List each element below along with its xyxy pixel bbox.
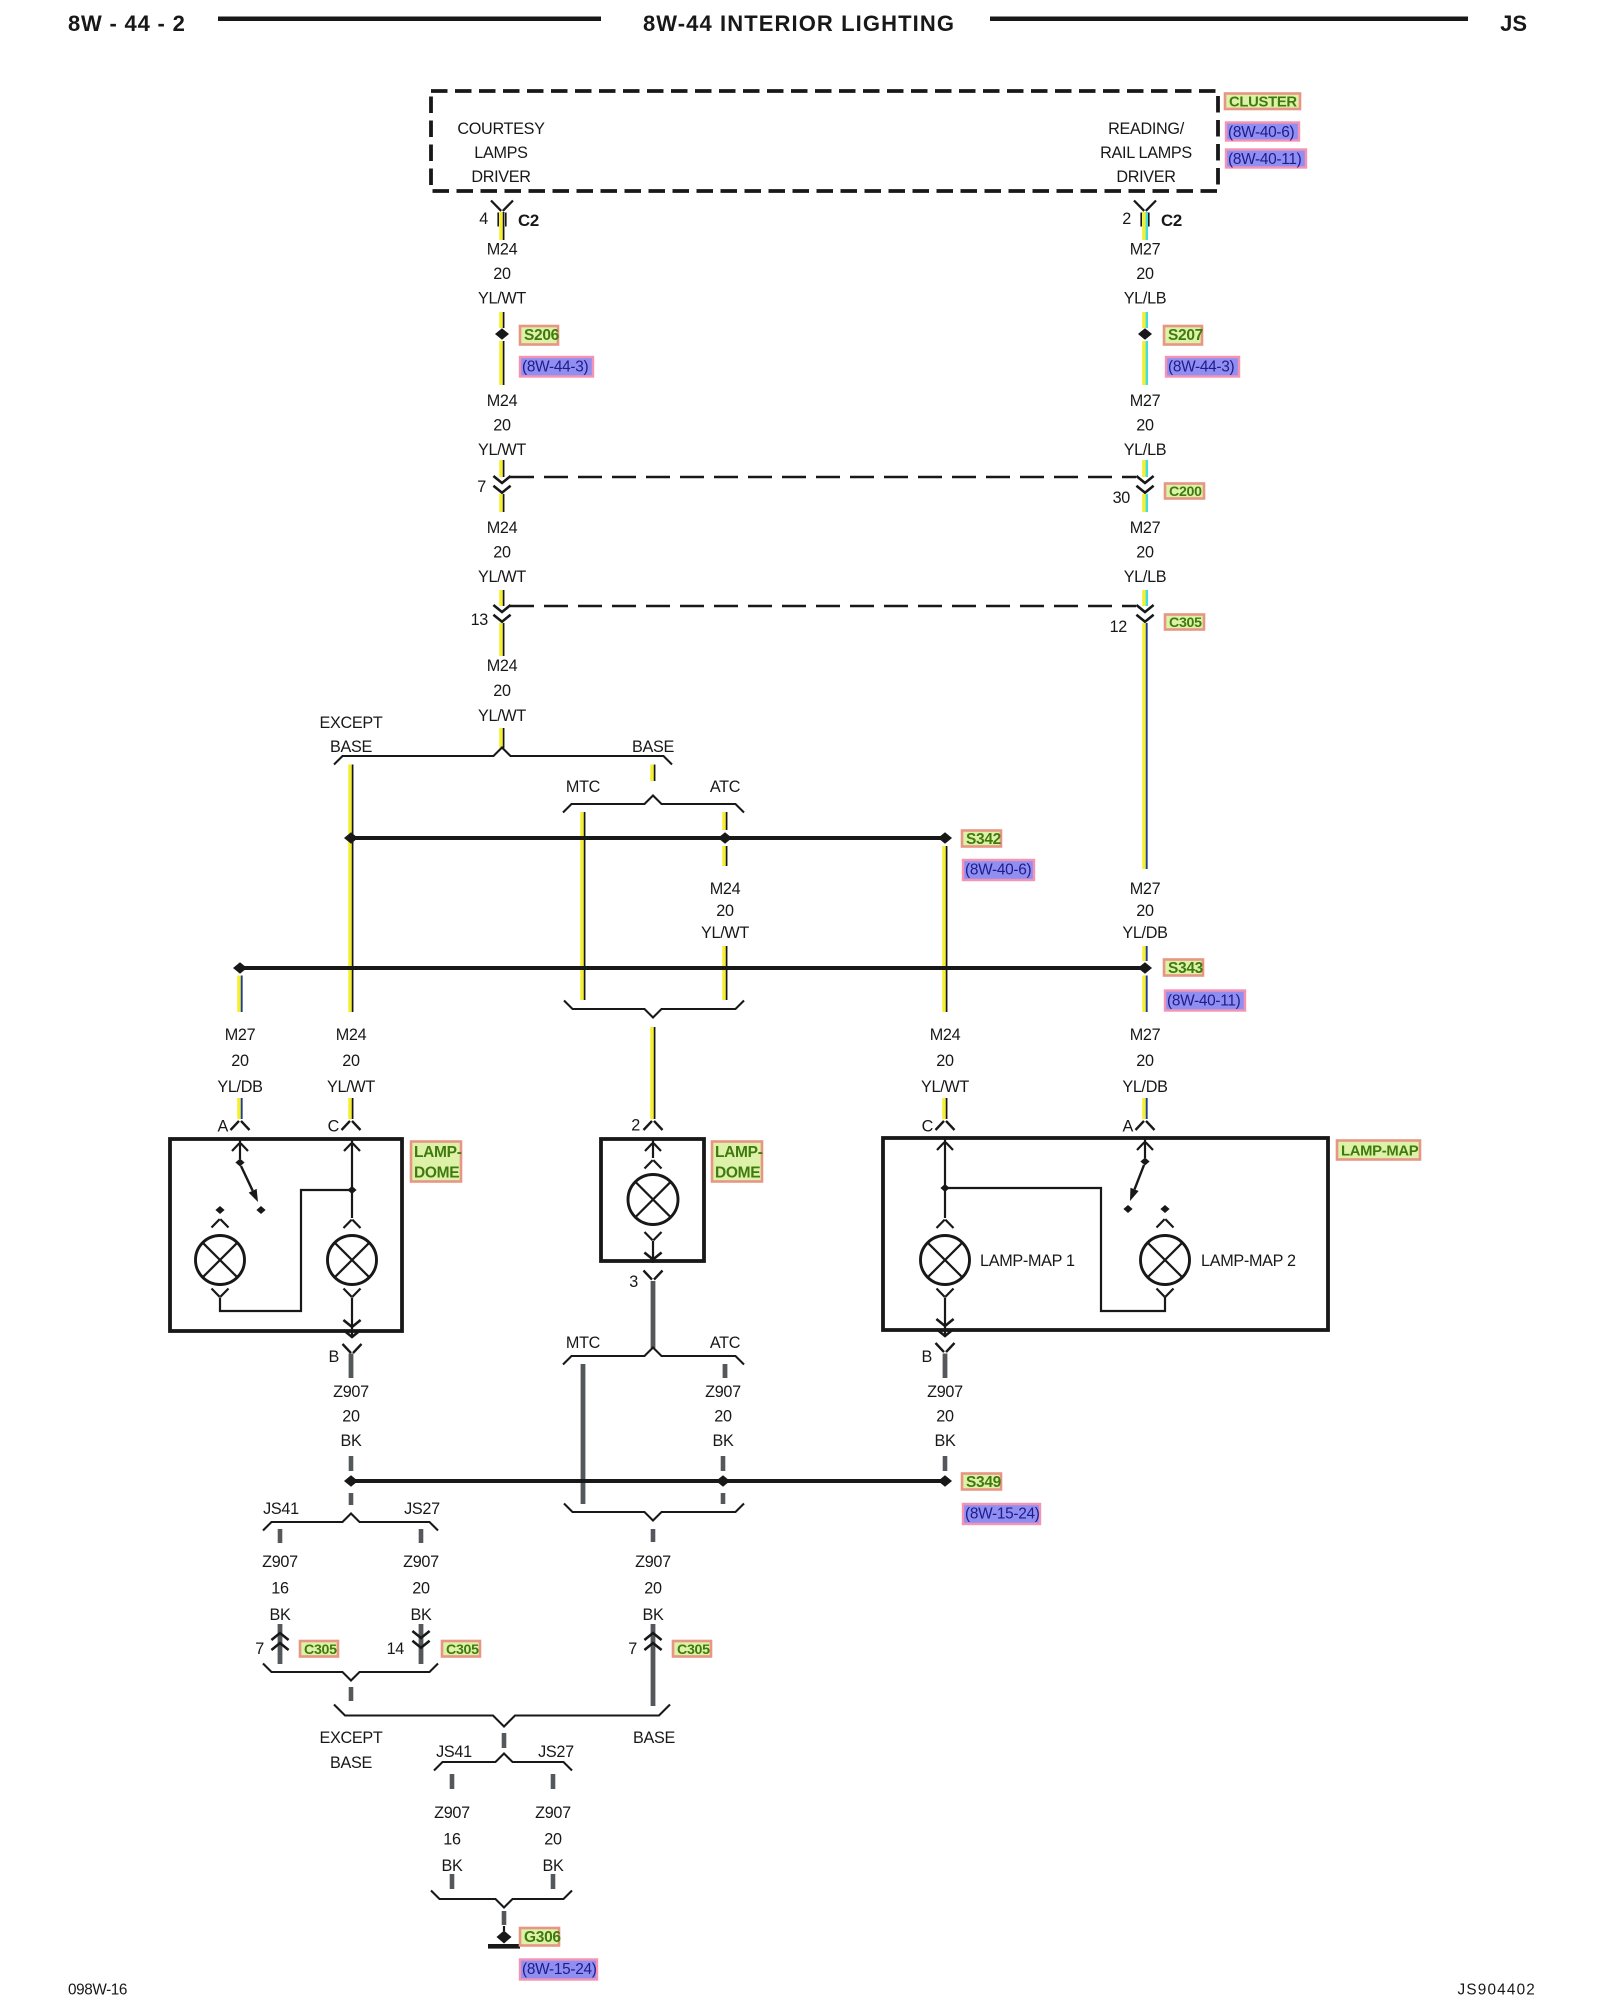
option split MTC / ATC upper [563, 796, 744, 813]
wire Z907 js27 ground stub [551, 1774, 556, 1789]
svg-text:BK: BK [270, 1606, 291, 1624]
svg-text:JS904402: JS904402 [1458, 1982, 1537, 1999]
svg-text:(8W-44-3): (8W-44-3) [522, 359, 588, 376]
svg-text:YL/DB: YL/DB [1122, 1078, 1167, 1096]
svg-text:BK: BK [411, 1606, 432, 1624]
dome lamp2 [328, 1236, 377, 1285]
svg-text:LAMP-MAP: LAMP-MAP [1341, 1144, 1419, 1160]
splice S342 diamond atc [718, 832, 732, 844]
svg-text:16: 16 [271, 1580, 289, 1598]
svg-text:20: 20 [936, 1408, 954, 1426]
svg-text:B: B [922, 1348, 933, 1366]
svg-text:20: 20 [493, 682, 511, 700]
splice S349 diamond atc [716, 1475, 730, 1487]
svg-text:Z907: Z907 [434, 1804, 470, 1822]
svg-text:MTC: MTC [566, 1334, 601, 1352]
dome switch blade [241, 1166, 253, 1191]
svg-text:(8W-44-3): (8W-44-3) [1168, 359, 1234, 376]
pin A lamp-map [1136, 1121, 1145, 1130]
svg-text:M24: M24 [336, 1026, 367, 1044]
wire Z907 below S349 atc dashed [721, 1493, 726, 1504]
splice S342 diamond left [344, 832, 358, 844]
map switch blade [1135, 1165, 1144, 1189]
dome lamp2 terminal [344, 1220, 352, 1228]
dome2 lamp lower terminal [645, 1232, 653, 1240]
reference (8W-40-11) [1226, 150, 1306, 168]
wire M24 dome pin2 segment [650, 1027, 654, 1119]
wire M24 MTC branch [580, 812, 584, 1000]
svg-text:BK: BK [713, 1432, 734, 1450]
svg-text:7: 7 [628, 1640, 637, 1658]
wire Z907 merged stub [651, 1529, 656, 1542]
wire M27 seg5 [1142, 494, 1146, 512]
splice S343 diamond right [1138, 962, 1152, 974]
map pin B exit chevrons [936, 1319, 953, 1326]
label C305 js27 [442, 1641, 480, 1657]
svg-text:2: 2 [1122, 210, 1131, 228]
svg-text:DRIVER: DRIVER [471, 168, 530, 186]
svg-text:13: 13 [471, 611, 489, 629]
svg-text:YL/DB: YL/DB [217, 1078, 262, 1096]
dome lamp2 lower terminal [344, 1289, 352, 1297]
wire M24 seg7 [499, 623, 503, 656]
svg-text:Z907: Z907 [535, 1804, 571, 1822]
wire Z907 js27 lower [419, 1624, 424, 1664]
svg-text:BK: BK [543, 1857, 564, 1875]
svg-text:JS41: JS41 [436, 1743, 472, 1761]
option split JS41 / JS27 upper [263, 1514, 438, 1531]
label C305 right [1165, 615, 1204, 630]
option merge MTC/ATC lower [564, 1504, 744, 1521]
reference (8W-40-6) at S342 [963, 860, 1034, 880]
wire Z907 merged ground stub [502, 1733, 507, 1748]
dome switch pin A entry [239, 1141, 241, 1160]
svg-text:20: 20 [1136, 417, 1154, 435]
svg-text:BASE: BASE [632, 738, 674, 756]
svg-text:JS41: JS41 [263, 1500, 299, 1518]
svg-text:20: 20 [644, 1580, 662, 1598]
label CLUSTER [1225, 94, 1300, 110]
wire M27 seg6 [1142, 590, 1146, 606]
map pin C entry [944, 1140, 946, 1159]
svg-text:LAMP-: LAMP- [414, 1144, 462, 1161]
svg-text:YL/WT: YL/WT [478, 568, 526, 586]
svg-text:LAMP-MAP 2: LAMP-MAP 2 [1201, 1252, 1296, 1270]
option split JS41 / JS27 lower [434, 1754, 572, 1771]
reference (8W-40-11) at S343 [1165, 991, 1245, 1011]
pin B lamp-dome [343, 1344, 352, 1353]
svg-text:C200: C200 [1169, 484, 1202, 500]
connector C200 pin 7 left [493, 476, 510, 483]
svg-text:DOME: DOME [414, 1165, 459, 1182]
svg-text:S343: S343 [1168, 960, 1204, 977]
svg-text:20: 20 [936, 1052, 954, 1070]
wire M27 left seg2 [237, 1098, 241, 1119]
label C200 [1165, 484, 1204, 499]
wire M24 base stub [650, 765, 654, 782]
wire M24 seg8 [499, 728, 503, 748]
svg-text:RAIL LAMPS: RAIL LAMPS [1100, 144, 1192, 162]
connector C200 pin 30 right [1136, 476, 1153, 483]
svg-text:READING/: READING/ [1108, 120, 1185, 138]
svg-text:8W-44 INTERIOR LIGHTING: 8W-44 INTERIOR LIGHTING [643, 11, 955, 36]
svg-text:16: 16 [443, 1831, 461, 1849]
component LAMP-DOME courtesy box [601, 1139, 704, 1261]
splice S349 diamond right [938, 1475, 952, 1487]
svg-text:M27: M27 [1130, 1026, 1161, 1044]
svg-text:20: 20 [412, 1580, 430, 1598]
dome2 pin 2 entry [652, 1141, 654, 1159]
wire M27 right seg2 [1142, 1098, 1146, 1119]
wire Z907 ground stub [502, 1911, 507, 1925]
svg-text:M24: M24 [930, 1026, 961, 1044]
svg-text:C: C [922, 1118, 934, 1136]
wire Z907 map-b dashed [943, 1456, 948, 1471]
svg-text:DOME: DOME [715, 1165, 760, 1182]
label S206 [520, 326, 558, 345]
wire M27 20 YL/LB seg1 [1142, 212, 1146, 240]
wire Z907 js27 ground stub2 [551, 1874, 556, 1889]
map internal wire to lamp2 return [945, 1188, 1165, 1311]
svg-text:CLUSTER: CLUSTER [1229, 95, 1297, 111]
dome junction on C line [347, 1186, 356, 1194]
dome2 lamp terminal [645, 1160, 653, 1168]
connector C2 pin 4 [491, 201, 501, 211]
wire M27 20 YL/DB long segment [1142, 623, 1146, 869]
svg-text:Z907: Z907 [333, 1383, 369, 1401]
svg-text:20: 20 [231, 1052, 249, 1070]
map lamp1 lower terminal [937, 1289, 945, 1297]
component LAMP-MAP box [883, 1138, 1328, 1330]
wire Z907 20 BK dome-b [349, 1354, 354, 1379]
svg-text:A: A [218, 1118, 229, 1136]
reference (8W-15-24) at S349 [963, 1504, 1040, 1524]
pin 2 lamp-dome courtesy [644, 1121, 653, 1130]
map lamp2 contact [1160, 1205, 1169, 1213]
svg-text:Z907: Z907 [705, 1383, 741, 1401]
svg-text:8W - 44 - 2: 8W - 44 - 2 [68, 11, 186, 36]
dome lamp1 lower terminal [212, 1289, 220, 1297]
component LAMP-DOME box [170, 1139, 402, 1331]
svg-text:YL/WT: YL/WT [327, 1078, 375, 1096]
svg-text:JS27: JS27 [404, 1500, 440, 1518]
svg-text:BASE: BASE [330, 1754, 372, 1772]
svg-text:30: 30 [1113, 489, 1131, 507]
svg-text:B: B [329, 1348, 340, 1366]
wire M24 seg4 [499, 460, 503, 477]
svg-text:ATC: ATC [710, 778, 741, 796]
map junction on C line [940, 1184, 949, 1192]
svg-text:C305: C305 [677, 1642, 710, 1658]
svg-text:2: 2 [631, 1117, 640, 1135]
wire M24 ATC seg3 [722, 946, 726, 1000]
wire Z907 dome2 pin3 [651, 1281, 656, 1348]
svg-text:M24: M24 [710, 880, 741, 898]
svg-text:(8W-15-24): (8W-15-24) [965, 1506, 1040, 1523]
svg-text:Z907: Z907 [262, 1553, 298, 1571]
component CLUSTER dashed box [431, 91, 1218, 191]
svg-text:YL/WT: YL/WT [478, 441, 526, 459]
svg-text:C305: C305 [304, 1642, 337, 1658]
svg-text:20: 20 [1136, 265, 1154, 283]
map lamp1 [921, 1236, 970, 1285]
svg-text:M27: M27 [1130, 880, 1161, 898]
svg-text:M24: M24 [487, 519, 518, 537]
dome pin B exit chevrons [343, 1320, 360, 1327]
svg-text:YL/DB: YL/DB [1122, 924, 1167, 942]
svg-text:7: 7 [477, 478, 486, 496]
svg-text:BASE: BASE [633, 1729, 675, 1747]
svg-text:20: 20 [342, 1408, 360, 1426]
wire Z907 atc dashed [721, 1456, 726, 1471]
wire Z907 20 BK map-b [943, 1354, 948, 1379]
dome pin C entry [351, 1141, 353, 1160]
wire Z907 merged lower [651, 1624, 656, 1706]
wire M24 20 YL/WT seg1 [499, 212, 503, 240]
svg-text:M27: M27 [225, 1026, 256, 1044]
svg-text:A: A [1123, 1118, 1134, 1136]
splice S342 diamond right [938, 832, 952, 844]
svg-text:Z907: Z907 [635, 1553, 671, 1571]
svg-text:BK: BK [935, 1432, 956, 1450]
label S207 [1164, 326, 1202, 345]
splice S206 [495, 328, 509, 340]
svg-text:3: 3 [629, 1273, 638, 1291]
wire Z907 except-base stub [349, 1687, 354, 1701]
connector C2 pin 2 [1134, 201, 1144, 211]
svg-text:C2: C2 [518, 211, 539, 230]
map lamp2 [1141, 1236, 1190, 1285]
svg-text:20: 20 [493, 265, 511, 283]
map lamp1 terminal [937, 1220, 945, 1228]
pin A lamp-dome [231, 1121, 240, 1130]
wire M27 seg4 [1142, 460, 1146, 477]
svg-text:BASE: BASE [330, 738, 372, 756]
splice S349 diamond left [344, 1475, 358, 1487]
svg-text:4: 4 [479, 210, 488, 228]
option merge JS41/JS27 [263, 1664, 438, 1681]
svg-text:YL/WT: YL/WT [478, 290, 526, 308]
connector C305 dashed line [510, 605, 1136, 607]
wire M27 YL/DB seg to S343 [1142, 946, 1146, 961]
svg-text:20: 20 [493, 544, 511, 562]
pin B lamp-map [936, 1343, 945, 1352]
svg-text:DRIVER: DRIVER [1116, 168, 1175, 186]
svg-text:G306: G306 [524, 1929, 561, 1946]
pin 3 lamp-dome courtesy [644, 1271, 653, 1280]
wire M24 ATC seg2 [722, 846, 726, 866]
svg-text:(8W-40-11): (8W-40-11) [1228, 151, 1302, 168]
map lamp2 lower terminal [1157, 1289, 1165, 1297]
svg-text:20: 20 [716, 902, 734, 920]
dome lamp1 [196, 1236, 245, 1285]
svg-text:M27: M27 [1130, 241, 1161, 259]
reference (8W-44-3) right [1166, 357, 1239, 377]
svg-text:BK: BK [442, 1857, 463, 1875]
svg-text:20: 20 [1136, 1052, 1154, 1070]
svg-text:7: 7 [255, 1640, 264, 1658]
splice S343 line [240, 966, 1145, 970]
wire M24 seg6 [499, 590, 503, 606]
connector C200 dashed bulkhead line [510, 476, 1136, 478]
dome2 lamp [628, 1175, 678, 1225]
map switch throw contact [1123, 1205, 1132, 1213]
pin C lamp-map [936, 1121, 945, 1130]
svg-text:(8W-40-11): (8W-40-11) [1167, 993, 1241, 1010]
svg-text:S349: S349 [966, 1474, 1002, 1491]
svg-text:20: 20 [714, 1408, 732, 1426]
splice S342 line [351, 836, 945, 840]
label G306 [520, 1928, 559, 1946]
connector C305 pin 12 right [1136, 605, 1153, 612]
option merge to ground [431, 1891, 572, 1908]
wire M27 YL/DB left branch [237, 976, 241, 1013]
splice S207 [1138, 328, 1152, 340]
svg-text:C: C [328, 1118, 340, 1136]
svg-text:BK: BK [341, 1432, 362, 1450]
map switch pin A entry [1144, 1140, 1146, 1159]
label S342 [962, 831, 1001, 847]
svg-text:M27: M27 [1130, 392, 1161, 410]
wire M24 except-base branch [348, 765, 352, 1013]
svg-text:20: 20 [493, 417, 511, 435]
wire Z907 JS27 stub [419, 1529, 424, 1543]
wire M27 seg2 [1142, 312, 1146, 328]
svg-text:Z907: Z907 [403, 1553, 439, 1571]
svg-text:EXCEPT: EXCEPT [320, 714, 383, 732]
svg-text:LAMP-MAP 1: LAMP-MAP 1 [980, 1252, 1075, 1270]
option merge EXCEPT BASE / BASE ground [334, 1705, 670, 1727]
wire Z907 JS41 stub [278, 1529, 283, 1543]
map lamp2 terminal [1157, 1219, 1165, 1227]
svg-text:M24: M24 [487, 392, 518, 410]
splice S349 line [351, 1479, 945, 1483]
svg-text:YL/WT: YL/WT [921, 1078, 969, 1096]
svg-text:YL/WT: YL/WT [478, 707, 526, 725]
wire Z907 below S349 left [349, 1493, 354, 1505]
dome switch pivot contact [235, 1159, 244, 1167]
dome2 pin 3 exit chevron [644, 1253, 661, 1260]
label LAMP-DOME 2 [712, 1142, 762, 1182]
svg-text:M27: M27 [1130, 519, 1161, 537]
wire M27 YL/DB right branch [1142, 976, 1146, 1013]
wire Z907 js41 lower [278, 1624, 283, 1664]
svg-text:20: 20 [544, 1831, 562, 1849]
wire Z907 dome-b dashed [349, 1456, 354, 1471]
pin C lamp-dome [342, 1121, 351, 1130]
label LAMP-MAP [1337, 1141, 1420, 1160]
splice S343 diamond left [233, 962, 247, 974]
dome switch throw contact [256, 1206, 265, 1214]
wire Z907 js41 ground stub [450, 1774, 455, 1789]
svg-text:MTC: MTC [566, 778, 601, 796]
svg-text:(8W-40-6): (8W-40-6) [965, 862, 1031, 879]
reference (8W-15-24) at G306 [520, 1960, 597, 1980]
svg-text:S206: S206 [524, 327, 560, 344]
svg-text:C2: C2 [1161, 211, 1182, 230]
svg-text:20: 20 [342, 1052, 360, 1070]
dome lamp1 contact [215, 1206, 224, 1214]
label C305 js41 [300, 1641, 338, 1657]
connector C305 pin 7 base [644, 1633, 661, 1640]
svg-text:LAMP-: LAMP- [715, 1144, 763, 1161]
svg-text:S207: S207 [1168, 327, 1203, 344]
svg-text:(8W-15-24): (8W-15-24) [522, 1961, 597, 1978]
label LAMP-DOME 1 [411, 1142, 461, 1182]
svg-text:YL/LB: YL/LB [1124, 290, 1167, 308]
reference (8W-40-6) [1226, 123, 1299, 141]
dome lamp1 terminal [212, 1219, 220, 1227]
wire Z907 ATC stub [723, 1364, 728, 1378]
header rule left [218, 17, 601, 22]
svg-text:12: 12 [1110, 618, 1128, 636]
wire Z907 js41 ground stub2 [450, 1874, 455, 1889]
wire M24 ATC stub [722, 812, 726, 830]
svg-text:S342: S342 [966, 831, 1001, 848]
wire M24 seg5 [499, 494, 503, 512]
wire M24 map-c seg2 [942, 1098, 946, 1119]
svg-text:ATC: ATC [710, 1334, 741, 1352]
option merge MTC/ATC to dome lamp [564, 1001, 744, 1018]
svg-text:YL/LB: YL/LB [1124, 568, 1167, 586]
wire M27 seg3 [1142, 341, 1146, 385]
option split EXCEPT BASE / BASE [334, 748, 672, 765]
dome internal wire lamp1 to C [220, 1190, 350, 1311]
wire M24 dome-c seg2 [348, 1098, 352, 1119]
svg-text:M24: M24 [487, 241, 518, 259]
svg-text:(8W-40-6): (8W-40-6) [1228, 124, 1294, 141]
svg-text:BK: BK [643, 1606, 664, 1624]
svg-text:M24: M24 [487, 657, 518, 675]
svg-text:C305: C305 [446, 1642, 479, 1658]
svg-text:14: 14 [387, 1640, 405, 1658]
header rule right [990, 17, 1468, 22]
connector C305 pin 13 left [493, 605, 510, 612]
svg-text:Z907: Z907 [927, 1383, 963, 1401]
svg-text:YL/WT: YL/WT [701, 924, 749, 942]
svg-text:JS27: JS27 [538, 1743, 574, 1761]
svg-text:098W-16: 098W-16 [68, 1982, 127, 1999]
label S343 [1164, 960, 1203, 976]
reference (8W-44-3) left [520, 357, 593, 377]
svg-text:YL/LB: YL/LB [1124, 441, 1167, 459]
option split MTC / ATC lower [563, 1348, 744, 1365]
map switch pivot contact [1140, 1158, 1149, 1166]
label S349 [962, 1474, 1001, 1490]
svg-text:COURTESY: COURTESY [457, 120, 545, 138]
ground G306 [503, 1926, 505, 1931]
svg-text:EXCEPT: EXCEPT [320, 1729, 383, 1747]
svg-text:LAMPS: LAMPS [474, 144, 528, 162]
wire M24 seg2 [499, 312, 503, 328]
svg-text:C305: C305 [1169, 615, 1202, 631]
svg-text:20: 20 [1136, 544, 1154, 562]
svg-text:JS: JS [1500, 11, 1527, 36]
label C305 base [673, 1641, 711, 1657]
wire M24 seg3 [499, 341, 503, 385]
connector C305 pin 7 js41 [271, 1633, 288, 1640]
svg-text:20: 20 [1136, 902, 1154, 920]
connector C305 pin 14 js27 [412, 1631, 429, 1638]
wire Z907 MTC branch [581, 1364, 586, 1504]
wire M24 right branch from S342 [942, 846, 946, 1012]
